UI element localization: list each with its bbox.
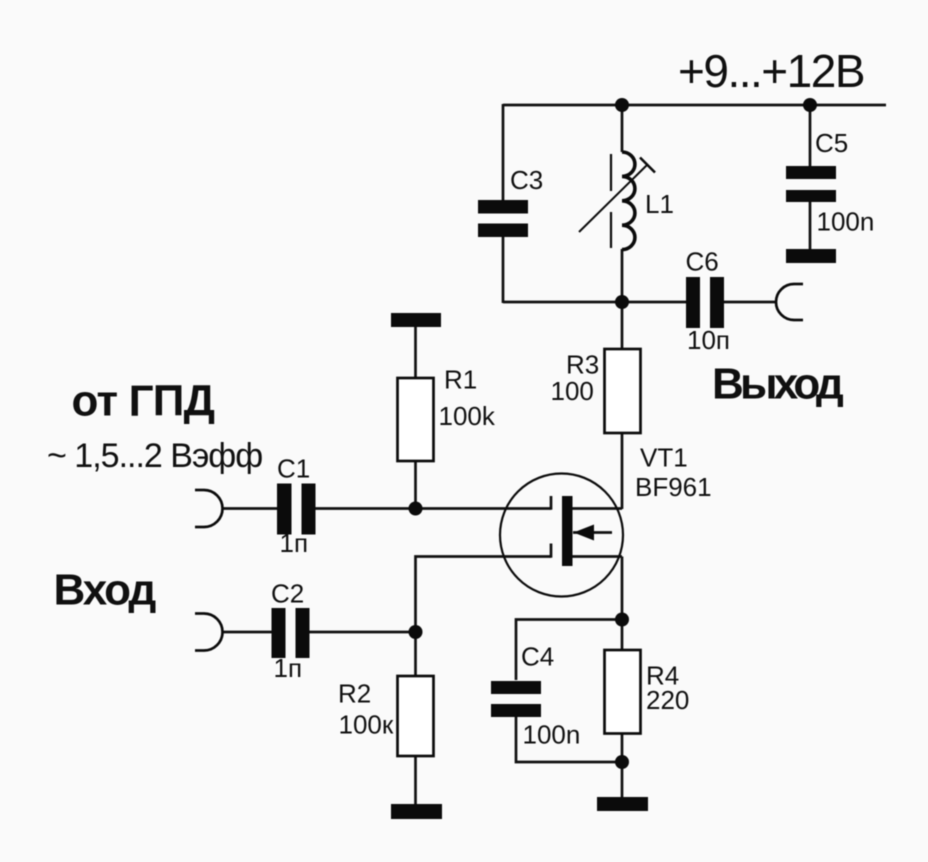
inductor L1 adjust arrow diagonal [579, 164, 648, 232]
node junction gate2 [409, 625, 423, 639]
wire L1 bottom [621, 249, 624, 302]
wire input2 to C2 [223, 631, 273, 634]
wire C4 top link [516, 620, 622, 681]
wire C2 to gate2 node [309, 631, 416, 634]
svg-text:C3: C3 [510, 165, 543, 195]
capacitor C1 plates [277, 484, 316, 535]
wire C3 branch top [502, 104, 505, 201]
connector output [776, 284, 803, 320]
svg-text:Вход: Вход [54, 566, 157, 615]
wire drain lead [572, 507, 622, 510]
wire gate2 riser and line [416, 557, 552, 633]
resistor R2 [398, 676, 434, 756]
svg-text:C2: C2 [271, 579, 304, 609]
capacitor C3 plates [478, 200, 528, 237]
wire R1 ground to R1 [414, 327, 417, 378]
node junction tank bottom [615, 295, 629, 309]
wire R3 top [621, 302, 624, 349]
svg-text:C6: C6 [686, 247, 719, 277]
inductor L1 coil [622, 152, 635, 250]
wire gate1 line C1 to transistor [315, 507, 551, 510]
resistor R4 [605, 650, 641, 734]
svg-text:100n: 100n [817, 207, 875, 237]
svg-text:220: 220 [646, 685, 689, 715]
capacitor C2 plates [272, 608, 310, 658]
svg-text:L1: L1 [645, 189, 674, 219]
transistor VT1 substrate line [573, 531, 612, 534]
svg-text:C4: C4 [521, 642, 554, 672]
wire C4 bottom link [516, 716, 622, 762]
svg-text:от ГПД: от ГПД [72, 377, 215, 426]
wire C6 to output connector [724, 301, 776, 304]
svg-text:1п: 1п [280, 528, 309, 558]
connector input 1 (from GPD) [195, 490, 223, 527]
transistor VT1 gate2 stub [550, 544, 553, 558]
connector input 2 (Vhod) [195, 614, 223, 651]
svg-text:+9...+12В: +9...+12В [678, 45, 864, 97]
node junction power/C5 [803, 98, 817, 112]
resistor R1 [398, 378, 434, 461]
svg-text:1п: 1п [274, 653, 303, 683]
capacitor C5 plates [786, 166, 836, 202]
svg-text:R2: R2 [338, 679, 371, 709]
svg-text:~ 1,5...2 Вэфф: ~ 1,5...2 Вэфф [47, 437, 262, 475]
wire tank bottom node line [503, 301, 686, 304]
transistor VT1 substrate arrow [574, 525, 595, 541]
capacitor C6 plates [686, 277, 724, 328]
node junction source/C4 [615, 613, 629, 627]
wire C5 top [809, 105, 812, 167]
transistor VT1 gate1 stub [550, 496, 553, 510]
wire R3 bottom to drain [621, 433, 624, 509]
svg-text:R3: R3 [566, 350, 599, 380]
svg-text:100n: 100n [523, 720, 581, 750]
svg-text:Выход: Выход [712, 360, 844, 409]
wire C5 bottom to ground [809, 201, 812, 250]
inductor L1 adjust arrow T-bar [640, 158, 655, 173]
resistor R3 [605, 349, 641, 433]
wire R1 bottom to gate1 node [414, 461, 417, 510]
transistor VT1 channel bar [562, 496, 573, 566]
transistor VT1 body circle [500, 474, 623, 597]
svg-text:VT1: VT1 [640, 443, 688, 473]
wire input1 to C1 [223, 507, 279, 510]
wire L1 top [621, 105, 624, 152]
wire R2 bottom to ground [414, 756, 417, 805]
wire C3 branch bottom [502, 237, 505, 303]
node junction gate1 [409, 502, 423, 516]
svg-text:100: 100 [551, 376, 594, 406]
capacitor C4 plates [491, 681, 541, 717]
svg-text:R1: R1 [444, 365, 477, 395]
wire R2 top [414, 632, 417, 676]
svg-text:100k: 100k [439, 401, 496, 431]
inductor L1 core line [610, 154, 612, 248]
wire power rail +9..12V [503, 104, 886, 107]
node junction power/L1 [615, 98, 629, 112]
svg-text:C5: C5 [815, 128, 848, 158]
wire R4 bottom [621, 733, 624, 797]
node junction R4/C4 bottom [615, 755, 629, 769]
svg-text:100к: 100к [339, 710, 394, 740]
ground under R2 [391, 804, 442, 819]
svg-text:BF961: BF961 [635, 472, 712, 502]
svg-text:10п: 10п [687, 325, 730, 355]
svg-text:C1: C1 [277, 454, 310, 484]
ground above R1 [391, 313, 441, 327]
ground under R4 [597, 797, 648, 811]
wire source down to node [621, 557, 624, 651]
ground under C5 [786, 249, 836, 263]
wire source lead [572, 555, 622, 558]
